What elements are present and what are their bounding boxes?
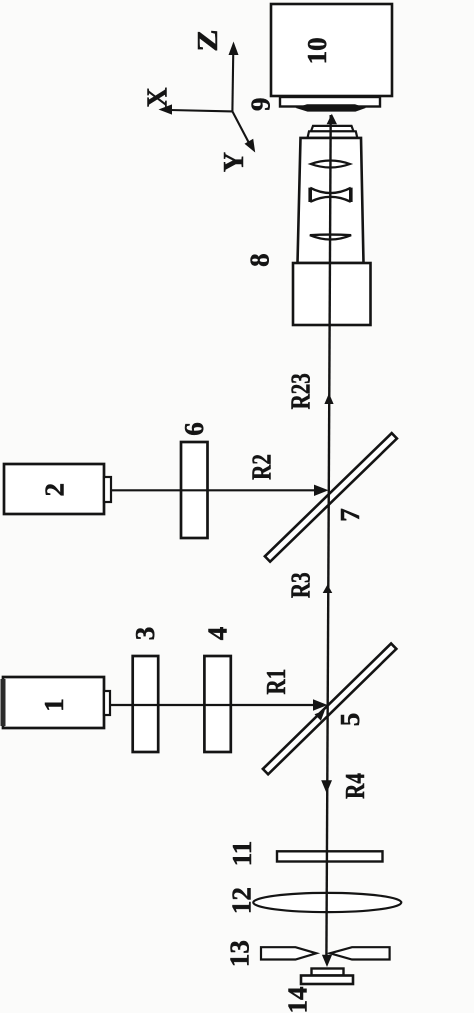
svg-text:X: X [143,87,174,107]
svg-text:7: 7 [335,508,365,522]
svg-text:1: 1 [39,698,69,712]
svg-text:Z: Z [192,29,224,51]
svg-text:8: 8 [244,253,274,267]
svg-text:4: 4 [203,627,233,641]
svg-text:10: 10 [302,37,332,64]
svg-text:R1: R1 [261,669,291,695]
svg-text:R4: R4 [340,773,370,799]
svg-text:2: 2 [40,483,70,497]
svg-text:9: 9 [245,98,275,112]
svg-text:3: 3 [130,627,160,641]
svg-text:5: 5 [335,713,365,727]
svg-text:R2: R2 [247,454,277,480]
svg-text:11: 11 [227,841,257,867]
svg-text:12: 12 [226,887,256,914]
svg-text:Y: Y [219,152,250,172]
svg-text:13: 13 [225,940,255,967]
svg-text:R23: R23 [286,373,316,409]
svg-text:6: 6 [179,422,209,436]
svg-text:R3: R3 [286,572,316,598]
svg-text:14: 14 [283,987,313,1013]
